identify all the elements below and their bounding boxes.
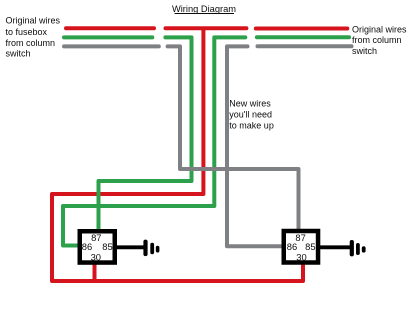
relay K2 box [284,231,318,263]
wire red new: tee down, left, down, bottom run to relay 30 pins [52,29,303,282]
svg-text:85: 85 [102,241,112,252]
connector plug K1 bars [143,240,159,257]
wire green original left horizontal [64,35,152,39]
svg-text:30: 30 [296,252,306,263]
relay K2 pin labels 87 86 85 30 [287,232,316,263]
connector lead K1 pin 85 [117,245,144,249]
svg-text:from column: from column [352,35,402,45]
svg-text:Original wires: Original wires [6,16,61,26]
svg-text:Original wires: Original wires [352,24,407,34]
svg-text:switch: switch [6,48,31,58]
svg-text:to fusebox: to fusebox [6,27,48,37]
label: New wires you'll need to make up [229,98,274,130]
label: Original wires from column switch (right) [352,24,407,56]
title: Wiring Diagram [172,4,236,14]
label: Original wires to fusebox from column switch (left) [6,16,61,59]
svg-text:New wires: New wires [229,98,271,108]
wire gray new right: down, right to right relay pin 86 [227,46,284,246]
svg-text:to make up: to make up [229,121,274,131]
svg-text:86: 86 [82,241,92,252]
svg-text:Wiring Diagram: Wiring Diagram [172,4,236,14]
svg-text:switch: switch [352,46,377,56]
relay K1 box [80,231,115,262]
connector lead K2 pin 85 [320,245,350,249]
wire green original right horizontal [257,35,349,39]
wire red original left horizontal [66,26,154,30]
svg-text:87: 87 [91,232,101,243]
wire red middle horizontal with tee [166,26,247,30]
svg-text:85: 85 [305,241,315,252]
wire gray original right horizontal [258,44,352,48]
relay K1 pin labels 87 86 85 30 [82,232,113,262]
svg-text:86: 86 [287,241,297,252]
svg-text:you'll need: you'll need [229,110,272,120]
wire gray original left horizontal [64,44,159,48]
svg-text:from column: from column [6,38,56,48]
wire green new right: down, left, down to left relay pin 86 [63,37,245,245]
wire green new left: down to left relay pin 87 [99,37,192,230]
wire red original right horizontal [256,27,347,31]
wire gray new left: down, right, down to right relay pin 87 [168,46,299,230]
wire red stub left relay pin 30 [93,264,97,281]
connector plug K2 bars [350,240,366,256]
svg-text:30: 30 [91,252,101,263]
